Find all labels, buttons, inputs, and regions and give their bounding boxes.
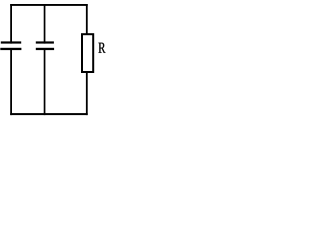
capacitor C2 bottom plate <box>36 48 54 50</box>
wire right branch upper <box>86 4 88 35</box>
capacitor C2 top plate <box>36 41 54 43</box>
wire left branch upper <box>10 4 12 44</box>
resistor R body <box>82 34 93 72</box>
wire right branch lower <box>86 72 88 116</box>
capacitor C1 top plate <box>1 41 21 43</box>
wire bottom rail <box>10 113 88 115</box>
wire left branch lower <box>10 48 12 115</box>
capacitor C1 bottom plate <box>0 48 21 50</box>
wire top rail <box>10 4 88 6</box>
circuit schematic: two capacitors in parallel with resistor R <box>0 0 129 121</box>
label R <box>99 43 106 53</box>
wire middle branch lower <box>44 48 46 115</box>
wire middle branch upper <box>44 4 46 44</box>
